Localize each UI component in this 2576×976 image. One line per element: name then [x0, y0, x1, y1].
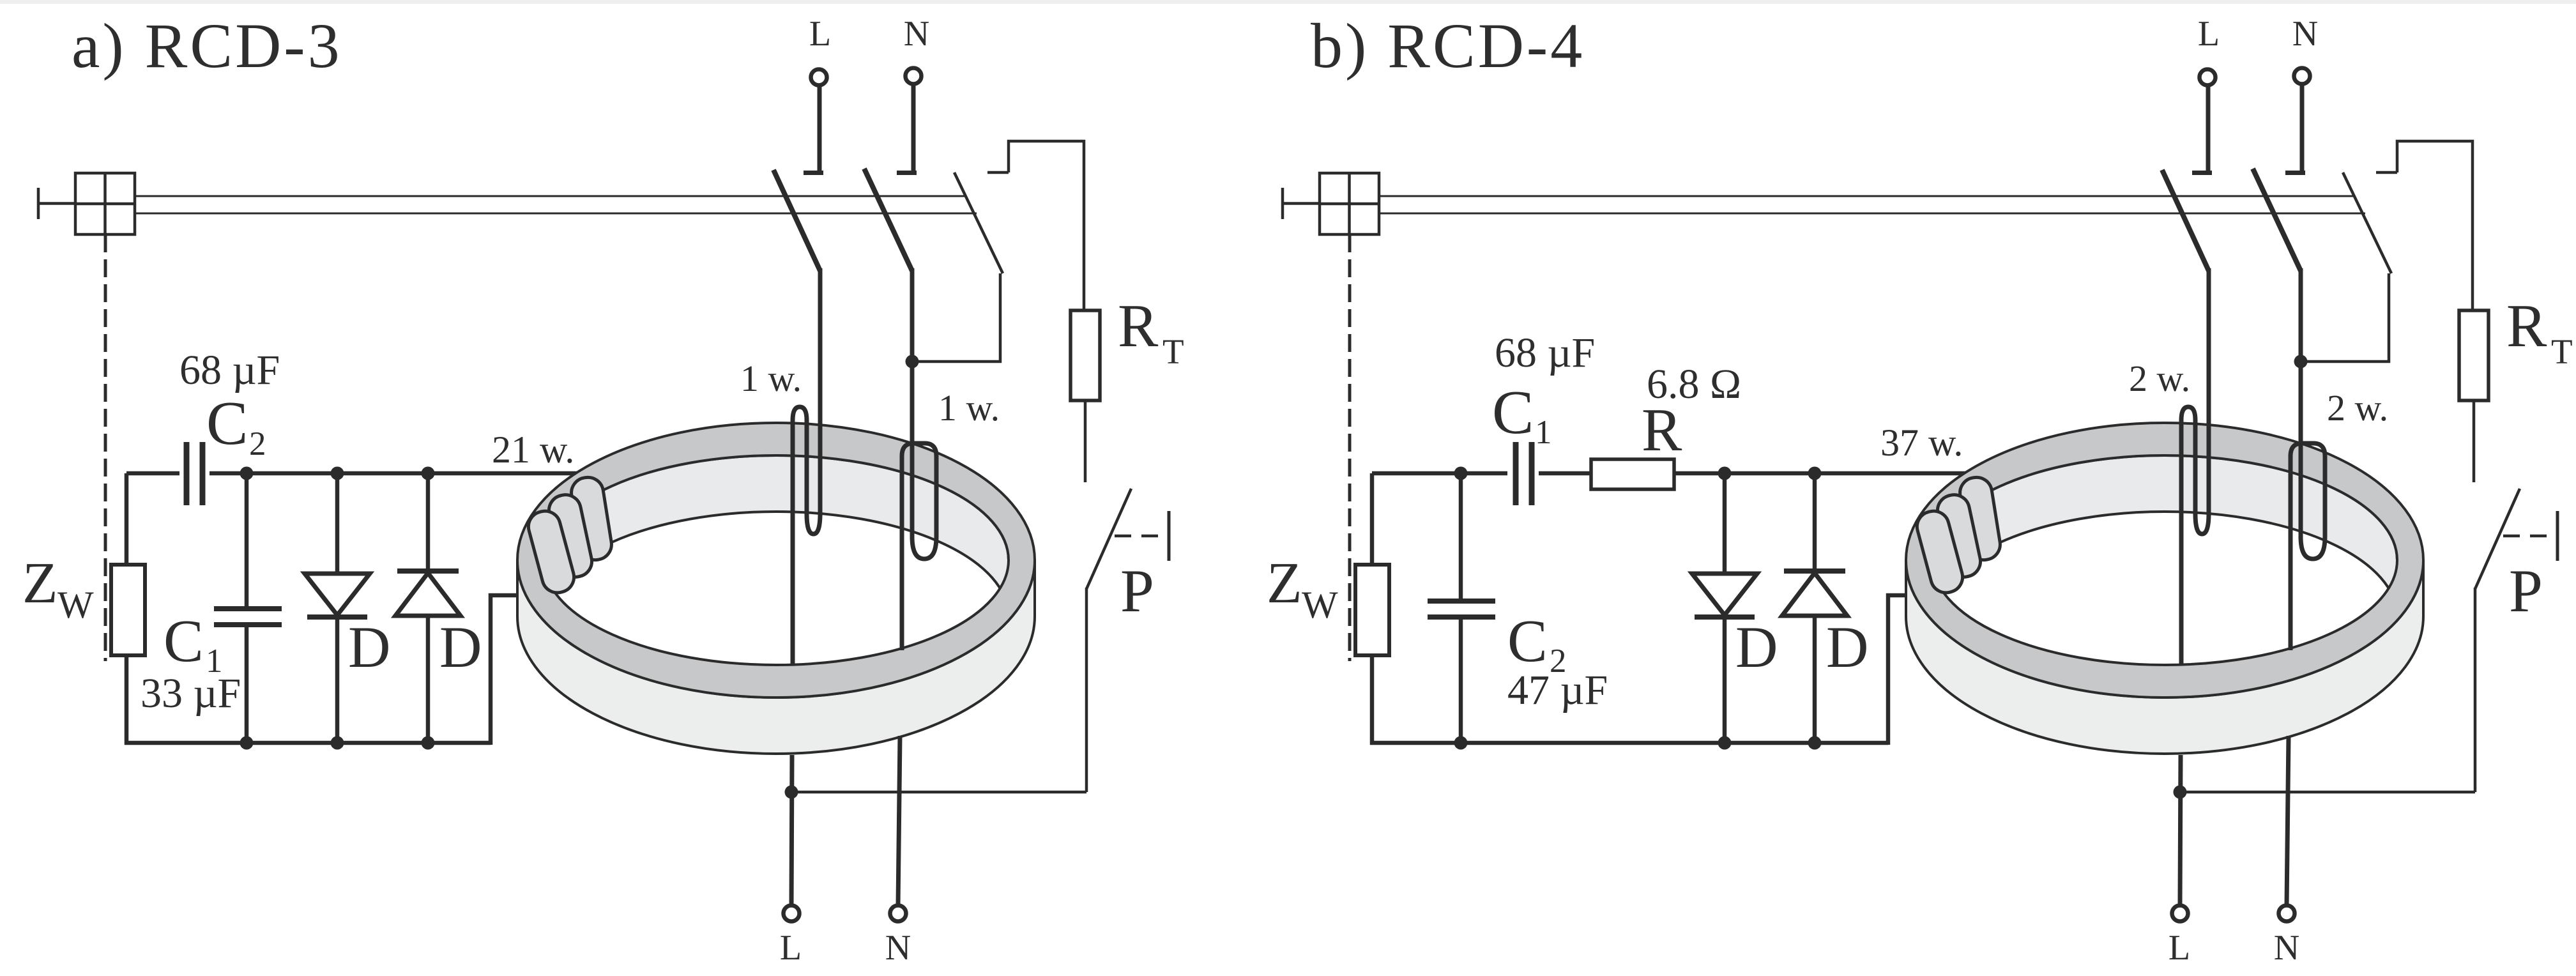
svg-text:L: L — [2198, 14, 2220, 54]
junction box (crossed square) (a) — [75, 173, 135, 234]
node dot top 2 (b) — [1718, 467, 1732, 480]
svg-text:a) RCD-3: a) RCD-3 — [72, 10, 342, 81]
capacitor C1 bottom plate (a) — [214, 622, 282, 627]
capacitor C2 bottom plate (b) — [1428, 614, 1495, 620]
svg-text:68 µF: 68 µF — [179, 347, 280, 393]
junction dot N test tap (a) — [906, 355, 919, 369]
test wire from N dot to aux blade (b) — [2301, 273, 2389, 362]
node dot bottom 2 (b) — [1718, 736, 1732, 750]
node dot top 1 (a) — [240, 467, 254, 480]
wire N terminal down (a) — [911, 84, 916, 172]
svg-text:2 w.: 2 w. — [2327, 387, 2388, 429]
terminal N top (a) — [906, 68, 922, 84]
double supply line upper (a) — [135, 195, 966, 197]
svg-text:W: W — [57, 584, 94, 626]
resistor Zw (a) — [111, 565, 145, 655]
wire aux contact to RT (a) — [1009, 141, 1084, 310]
node dot top 2 (a) — [331, 467, 344, 480]
wire N down into one-turn loop (b) — [2299, 362, 2303, 539]
wire node-top-left (b) — [1372, 471, 1507, 476]
resistor R 6.8 ohm (b) — [1591, 459, 1674, 489]
wire L blade down into one-turn loop (b) — [2207, 268, 2211, 516]
node dot bottom 3 (a) — [422, 736, 435, 750]
svg-text:1 w.: 1 w. — [740, 358, 802, 399]
top wire to toroid winding (b) — [1674, 471, 1974, 476]
N switch blade (b) — [2253, 169, 2301, 271]
N one-turn loop over core (b) — [2290, 443, 2325, 559]
svg-text:D: D — [1826, 614, 1868, 680]
diode D1 branch lower (a) — [335, 617, 340, 743]
L fixed contact foot (b) — [2192, 171, 2212, 175]
wire L blade down into one-turn loop (a) — [818, 268, 823, 516]
secondary winding band 2 (b) — [1935, 492, 1983, 580]
svg-text:P: P — [1120, 557, 1154, 625]
capacitor C1 branch upper (a) — [245, 473, 249, 607]
wire RT to P switch (a) — [1084, 400, 1087, 482]
wire L terminal down (a) — [818, 86, 822, 172]
wire L through toroid lower (b) — [2180, 755, 2181, 906]
svg-text:C: C — [206, 389, 248, 458]
test wire from N dot to aux blade (a) — [912, 273, 1000, 362]
secondary winding band 1 (a) — [569, 475, 614, 562]
diode D2 cathode bar (a) — [397, 568, 459, 574]
svg-text:C: C — [1507, 608, 1548, 675]
diode D1 branch upper (b) — [1723, 473, 1727, 573]
junction dot N test tap (b) — [2294, 355, 2308, 369]
svg-text:W: W — [1302, 584, 1338, 626]
svg-text:R: R — [1118, 292, 1159, 360]
svg-text:T: T — [1162, 332, 1184, 371]
svg-text:D: D — [439, 614, 482, 680]
terminal N bottom (b) — [2279, 906, 2295, 922]
secondary winding band 1 (b) — [1958, 475, 2002, 562]
svg-text:33 µF: 33 µF — [141, 670, 241, 717]
P actuator bar (b) — [2556, 511, 2559, 561]
wire aux contact to RT (b) — [2397, 141, 2473, 310]
auxiliary switch blade (a) — [954, 172, 1003, 273]
terminal L top (a) — [811, 70, 827, 86]
capacitor C2 branch lower (b) — [1459, 617, 1463, 743]
wire from terminal to junction box (a) — [38, 202, 75, 205]
svg-text:37 w.: 37 w. — [1880, 422, 1963, 464]
diode D2 branch upper (b) — [1813, 473, 1817, 571]
test resistor RT (b) — [2459, 310, 2488, 400]
diode D1 (cathode down) (a) — [305, 574, 370, 615]
node dot bottom 1 (a) — [240, 736, 254, 750]
left vertical wire upper (a) — [125, 473, 129, 566]
svg-text:D: D — [1735, 614, 1778, 680]
terminal L bottom (a) — [784, 906, 800, 922]
svg-text:2 w.: 2 w. — [2129, 358, 2190, 399]
diode D2 branch upper (a) — [426, 473, 431, 571]
svg-text:N: N — [885, 928, 911, 968]
svg-text:1 w.: 1 w. — [938, 387, 1000, 429]
junction box cross vertical (b) — [1348, 173, 1351, 234]
toroid core T (b) - inner wall through hole — [1932, 455, 2397, 616]
svg-text:L: L — [809, 14, 831, 54]
wire N through toroid lower (b) — [2287, 736, 2289, 906]
junction dot test circuit to L (b) — [2174, 786, 2187, 799]
P actuator dashed link (b) — [2503, 535, 2554, 538]
diode D2 (cathode up) (b) — [1782, 573, 1847, 616]
N switch blade (a) — [864, 169, 912, 271]
wire P down (a) — [1085, 588, 1088, 792]
double supply line upper (b) — [1379, 195, 2355, 197]
riser wire to winding bottom (a) — [491, 595, 522, 745]
left vertical wire lower (a) — [125, 655, 129, 745]
svg-text:Z: Z — [22, 551, 58, 615]
wire N terminal down (b) — [2300, 84, 2305, 172]
toroid core T (a) - inner wall through hole — [544, 455, 1009, 616]
N fixed contact foot (a) — [897, 171, 917, 175]
page top rule — [0, 0, 2576, 4]
test resistor RT (a) — [1071, 310, 1100, 400]
secondary winding band 3 (b) — [1914, 508, 1966, 597]
wire RT to P switch (b) — [2473, 400, 2476, 482]
terminal L bottom (b) — [2172, 906, 2188, 922]
wire from terminal to junction box (b) — [1283, 202, 1320, 205]
secondary winding band 2 (a) — [546, 492, 595, 580]
wire cap to resistor R (b) — [1539, 471, 1591, 476]
svg-text:C: C — [164, 608, 204, 675]
terminal N top (b) — [2294, 68, 2310, 84]
L switch blade (a) — [774, 170, 820, 271]
capacitor C1 right plate (b) — [1529, 442, 1535, 505]
svg-text:T: T — [2551, 332, 2573, 371]
top wire to toroid winding (a) — [210, 471, 585, 476]
L switch blade (b) — [2162, 170, 2209, 271]
capacitor C1 top plate (a) — [214, 606, 282, 611]
diode D1 branch upper (a) — [335, 473, 340, 573]
wire N through toroid upper (b) — [2289, 456, 2293, 650]
toroid core T (b) - outer side wall — [1906, 560, 2423, 754]
resistor Zw (b) — [1355, 565, 1389, 655]
dashed earth line (b) — [1348, 234, 1352, 661]
svg-text:1: 1 — [1535, 414, 1552, 451]
bottom rail (b) — [1370, 741, 1888, 745]
bottom rail (a) — [125, 741, 491, 745]
toroid core T (b) - top face ring — [1906, 423, 2423, 698]
terminal N bottom (a) — [890, 906, 906, 922]
capacitor C2 left plate (a) — [184, 442, 190, 505]
svg-text:2: 2 — [249, 425, 266, 462]
N fixed contact foot (b) — [2285, 171, 2305, 175]
wire node-top-left (a) — [126, 471, 179, 476]
earth/supply terminal tick (a) — [37, 188, 40, 219]
diode D2 branch lower (a) — [426, 616, 431, 743]
diode D2 cathode bar (b) — [1784, 568, 1845, 574]
terminal L top (b) — [2200, 70, 2216, 86]
left vertical wire upper (b) — [1370, 473, 1375, 566]
test button P blade (b) — [2475, 489, 2520, 589]
svg-text:L: L — [2168, 928, 2190, 968]
capacitor C1 left plate (b) — [1513, 442, 1519, 505]
wire N blade down (a) — [910, 268, 915, 364]
diode D1 cathode bar (b) — [1695, 614, 1755, 620]
diode D1 cathode bar (a) — [307, 614, 367, 620]
wire N through toroid upper (a) — [900, 456, 904, 650]
svg-text:R: R — [1642, 396, 1682, 464]
wire L through toroid upper (b) — [2179, 422, 2184, 664]
capacitor C2 top plate (b) — [1428, 599, 1495, 604]
node dot top 3 (b) — [1808, 467, 1822, 480]
dashed earth line (a) — [104, 234, 107, 661]
junction box cross horizontal (a) — [75, 202, 135, 206]
node dot top 3 (a) — [422, 467, 435, 480]
svg-text:R: R — [2506, 292, 2547, 360]
earth/supply terminal tick (b) — [1281, 188, 1284, 219]
svg-text:L: L — [780, 928, 802, 968]
junction box cross horizontal (b) — [1320, 202, 1379, 206]
junction box (crossed square) (b) — [1320, 173, 1379, 234]
wire L terminal down (b) — [2206, 86, 2211, 172]
secondary winding band 3 (a) — [525, 508, 577, 597]
L fixed contact foot (a) — [804, 171, 823, 175]
riser wire to winding bottom (b) — [1888, 595, 1911, 745]
node dot bottom 2 (a) — [331, 736, 344, 750]
auxiliary fixed contact tick (a) — [987, 171, 1009, 174]
capacitor C2 branch upper (b) — [1459, 473, 1463, 600]
wire P down (b) — [2474, 588, 2477, 792]
P actuator dashed link (a) — [1115, 535, 1165, 538]
wire P to L junction (a) — [791, 791, 1086, 794]
junction dot test circuit to L (a) — [785, 786, 798, 799]
capacitor C1 branch lower (a) — [245, 625, 249, 743]
node dot top 1 (b) — [1454, 467, 1468, 480]
svg-text:D: D — [348, 614, 390, 680]
wire N through toroid lower (a) — [898, 736, 900, 906]
auxiliary switch blade (b) — [2343, 172, 2391, 273]
capacitor C2 right plate (a) — [200, 442, 206, 505]
diode D1 branch lower (b) — [1723, 617, 1727, 743]
wire N down into one-turn loop (a) — [910, 362, 915, 539]
toroid core T (a) - outer side wall — [517, 560, 1035, 754]
wire P to L junction (b) — [2180, 791, 2475, 794]
L one-turn loop over core (b) — [2181, 407, 2209, 534]
left vertical wire lower (b) — [1370, 655, 1375, 745]
svg-text:N: N — [2274, 928, 2299, 968]
svg-text:Z: Z — [1267, 551, 1302, 615]
svg-text:68 µF: 68 µF — [1495, 330, 1595, 376]
junction box cross vertical (a) — [103, 173, 107, 234]
svg-text:N: N — [2292, 14, 2318, 54]
diode D1 (cathode down) (b) — [1692, 574, 1757, 615]
diode D2 (cathode up) (a) — [395, 573, 461, 616]
node dot bottom 3 (b) — [1808, 736, 1822, 750]
wire N blade down (b) — [2299, 268, 2303, 364]
svg-text:P: P — [2509, 557, 2543, 625]
diode D2 branch lower (b) — [1813, 616, 1817, 743]
double supply line lower (a) — [135, 213, 977, 215]
double supply line lower (b) — [1379, 213, 2365, 215]
N one-turn loop over core (a) — [902, 443, 936, 559]
svg-text:N: N — [904, 14, 929, 54]
svg-text:C: C — [1492, 378, 1534, 447]
P actuator bar (a) — [1168, 511, 1171, 561]
svg-text:21 w.: 21 w. — [492, 429, 574, 471]
wire L through toroid upper (a) — [791, 422, 795, 664]
wire L through toroid lower (a) — [791, 755, 792, 906]
toroid core T (a) - top face ring — [517, 423, 1035, 698]
L one-turn loop over core (a) — [793, 407, 820, 534]
svg-text:47 µF: 47 µF — [1507, 667, 1608, 713]
svg-text:b) RCD-4: b) RCD-4 — [1311, 10, 1585, 81]
auxiliary fixed contact tick (b) — [2376, 171, 2397, 174]
node dot bottom 1 (b) — [1454, 736, 1468, 750]
test button P blade (a) — [1086, 489, 1131, 589]
